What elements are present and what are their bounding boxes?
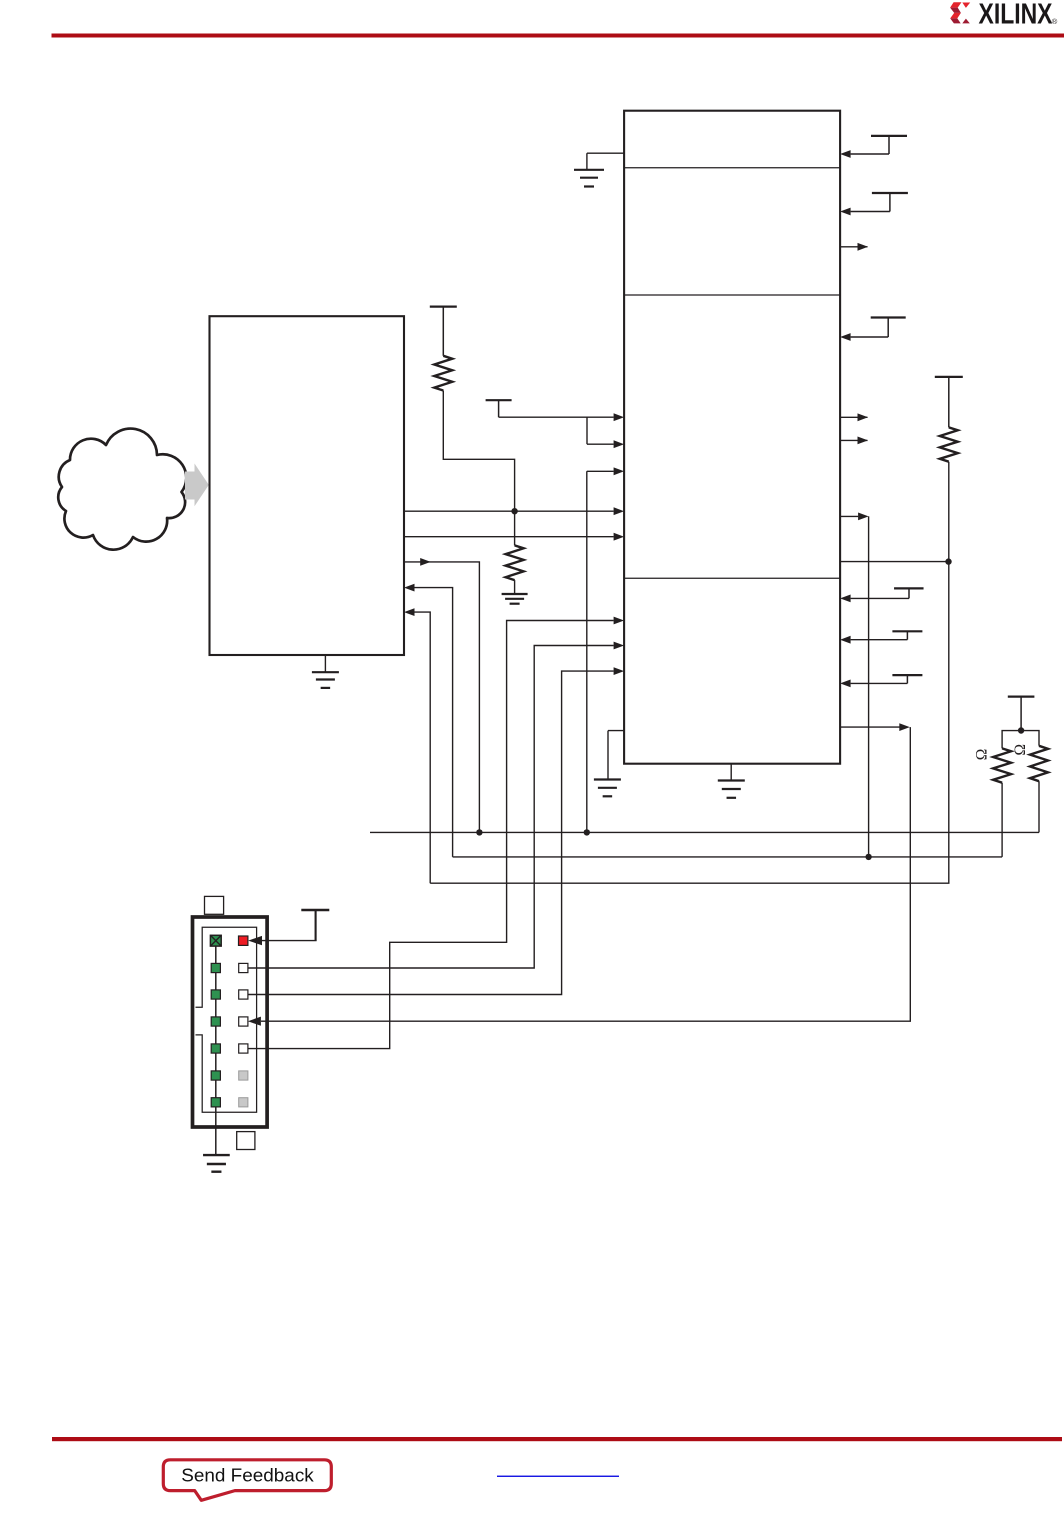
arrowhead into U2 (671) — [614, 667, 625, 675]
power rail bar VCC-E — [935, 377, 963, 428]
J1 key square bottom — [237, 1132, 255, 1150]
cloud (network) — [58, 429, 186, 550]
junction bus1/PHY-out — [476, 829, 482, 835]
bus wire 2 — [453, 856, 1003, 858]
arrowhead into U2 right (683) — [840, 680, 851, 688]
arrowhead U2 out (417) — [858, 413, 869, 421]
J1 pin10 right (white) — [239, 1044, 248, 1053]
arrowhead into U2 right (337) — [840, 333, 851, 341]
wire VCC-J1 to pin1 — [262, 940, 317, 942]
U2 bank divider 3 — [624, 577, 840, 579]
wire U2 to node B — [840, 561, 948, 563]
junction bus2 — [865, 854, 871, 860]
wire bus1 to U2 input — [587, 471, 614, 832]
block U2 (FPGA) — [624, 111, 840, 764]
svg-text:®: ® — [1052, 17, 1058, 26]
arrowhead into U2 (417) — [614, 413, 625, 421]
wire U2 out to bus2 — [840, 515, 858, 517]
arrowhead U2 out (727) — [899, 723, 910, 731]
power rail bar VCC-F — [1008, 697, 1035, 731]
wire node C split — [1002, 731, 1039, 749]
ground below U1 — [312, 672, 339, 688]
arrowhead PHY out (562) — [420, 558, 431, 566]
connector J1 inner outline — [196, 927, 257, 1112]
resistor R5 — [1030, 746, 1048, 781]
wire U2 out (417) — [840, 416, 867, 418]
J1 pin7 left (green) — [211, 1017, 220, 1026]
arrowhead into U2 (511) — [614, 507, 625, 515]
header rule — [52, 34, 1064, 38]
J1 pin5 left (green) — [211, 990, 220, 999]
wire U2 out (440) — [840, 439, 867, 441]
arrowhead into U2 right (598) — [840, 595, 851, 603]
J1 pin2 right (red) — [239, 936, 248, 945]
J1 pin1 left (no-connect, X) — [210, 935, 221, 946]
J1 pin12 right (gray) — [239, 1071, 248, 1080]
wire VCC-B to U2 — [499, 417, 614, 444]
wire R2 to ground — [514, 580, 516, 593]
junction node A — [511, 508, 517, 514]
wire U2 out (247) — [840, 246, 867, 248]
arrowhead into J1 pin4 — [248, 1017, 261, 1026]
arrowhead into U2 (645) — [614, 642, 625, 650]
power rail VCC-R6 — [851, 675, 923, 683]
wire J1 pin2 to U2 — [248, 646, 614, 969]
arrowhead into U2 (471) — [614, 467, 625, 475]
power rail bar VCC-A — [430, 307, 457, 356]
resistor R1 — [434, 356, 452, 391]
link underline — [497, 1476, 619, 1477]
wire U2 bottom ground stub — [730, 764, 732, 780]
power rail bar VCC-J1 — [301, 910, 329, 941]
wire R1 to node — [443, 391, 514, 512]
J1 pin11 left (green) — [211, 1071, 220, 1080]
wire PHY out to bus1 — [404, 562, 479, 833]
wire J1 pin3 to U2 — [248, 671, 614, 994]
J1 pin6 right (white) — [239, 990, 248, 999]
wire U2 bottom-left ground stub — [608, 731, 624, 779]
power rail VCC-R3 — [851, 318, 906, 338]
arrowhead into U2 (537) — [614, 533, 625, 541]
ground below R2 — [502, 594, 528, 604]
J1 pin8 right (white) — [239, 1017, 248, 1026]
wire PHY to U2 (511) — [404, 510, 614, 512]
connector J1 outer body — [193, 917, 268, 1127]
J1 pin13 left (green) — [211, 1098, 220, 1107]
arrowhead U2 out (247) — [858, 243, 869, 251]
power rail VCC-R1 — [851, 136, 907, 154]
junction bus1 x587 — [584, 829, 590, 835]
wire PHY to U2 (537) — [404, 536, 614, 538]
ground below U2 center — [718, 781, 745, 798]
Xilinx logo mark — [950, 2, 970, 23]
wire U1 ground stub — [324, 655, 326, 672]
wire R5 to bus1 — [1038, 781, 1040, 832]
svg-text:Send Feedback: Send Feedback — [181, 1466, 315, 1486]
power rail bar VCC-B — [486, 400, 512, 417]
svg-text:XILINX: XILINX — [979, 0, 1053, 31]
arrowhead into U2 (444) — [614, 440, 625, 448]
wire node A down — [514, 511, 516, 545]
U2 bank divider 2 — [624, 294, 840, 296]
wire R4 to bus2 — [1001, 783, 1003, 857]
resistor R4 — [993, 748, 1011, 782]
wire J1 ground stub — [215, 1127, 217, 1154]
J1 key square top — [205, 896, 224, 914]
arrowhead into J1 pin1 — [248, 936, 262, 945]
wire down to bus2 — [868, 516, 870, 857]
wire J1 pin5 to U2 — [248, 621, 614, 1049]
power rail VCC-R4 — [851, 588, 924, 598]
arrowhead into PHY (612) — [404, 608, 415, 616]
wire R3 to bus3 — [430, 462, 949, 884]
J1 pin9 left (green) — [211, 1044, 220, 1053]
arrowhead into U2 right (211) — [840, 208, 851, 216]
block U1 (Ethernet PHY) — [210, 316, 405, 655]
ground below J1 — [203, 1155, 230, 1172]
J1 pin4 right (white) — [239, 963, 248, 972]
bus wire 1 — [370, 831, 1039, 833]
arrowhead into U2 (620) — [614, 617, 625, 625]
ground at U2 top-left — [574, 170, 604, 187]
junction node B — [945, 558, 951, 564]
footer rule — [52, 1437, 1062, 1441]
junction node C — [1018, 727, 1024, 733]
wire bus2 to PHY (588) — [415, 588, 453, 857]
power rail VCC-R2 — [851, 193, 908, 212]
power rail VCC-R5 — [851, 631, 923, 639]
wire U2 out (727) — [840, 726, 899, 728]
wire bus3 to PHY (612) — [415, 612, 431, 883]
arrowhead U2 out (440) — [858, 437, 869, 445]
J1 left pin rail — [215, 941, 217, 1127]
arrowhead into U2 right (639) — [840, 636, 851, 644]
arrowhead U2 out (516) — [858, 513, 869, 521]
wire U2 top-left ground — [587, 153, 624, 169]
arrowhead into U2 right (154) — [840, 150, 851, 158]
arrowhead into PHY (588) — [404, 584, 415, 592]
U2 bank divider 1 — [624, 167, 840, 169]
J1 pin14 right (gray) — [239, 1098, 248, 1107]
wire U2 to J1 pin4 — [261, 727, 910, 1021]
Send Feedback button — [163, 1460, 331, 1501]
svg-text:Ω: Ω — [1012, 744, 1029, 756]
resistor R3 — [940, 427, 958, 461]
J1 pin3 left (green) — [211, 963, 220, 972]
resistor R2 — [506, 545, 524, 580]
svg-text:Ω: Ω — [973, 749, 990, 761]
gray arrow cloud-to-PHY — [185, 464, 209, 507]
ground below U2 left — [594, 780, 621, 797]
